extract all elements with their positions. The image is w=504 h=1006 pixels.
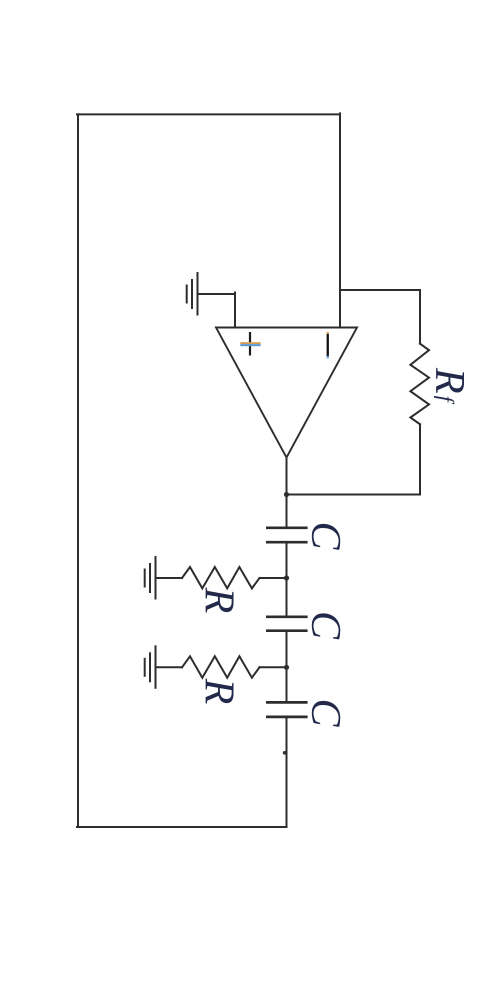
- op-amp U1 triangle: [216, 328, 357, 458]
- junction dot at op-amp output / feedback node: [284, 492, 289, 497]
- wire ground to non-inverting input horizontal: [198, 293, 236, 295]
- svg-text:R: R: [196, 678, 242, 705]
- op-amp plus sign horizontal stroke blue fringe: [240, 344, 260, 346]
- wire non-inverting input vertical: [234, 293, 236, 328]
- resistor Rf zigzag: [410, 344, 429, 425]
- wire op-amp output to C1: [286, 458, 288, 528]
- capacitor C3 plates: [266, 702, 308, 717]
- op-amp minus sign bar: [327, 334, 329, 356]
- ground symbol at R1: [145, 556, 156, 600]
- svg-text:C: C: [302, 521, 348, 550]
- svg-text:C: C: [302, 611, 348, 640]
- wire node A to C2 segment: [286, 542, 288, 617]
- wire outer loop left side: [77, 114, 79, 827]
- capacitor C2 plates: [266, 617, 308, 631]
- minus sign orange tip: [327, 332, 329, 334]
- op-amp plus sign vertical stroke: [249, 332, 251, 356]
- wire capacitor chain bottom segment: [286, 717, 288, 827]
- wire feedback top horizontal: [340, 289, 420, 291]
- wire Rf bottom lead: [419, 424, 421, 494]
- svg-text:Rf: Rf: [426, 367, 472, 405]
- op-amp plus sign horizontal stroke orange fringe: [240, 342, 260, 344]
- wire right vertical to inverting input: [339, 113, 341, 327]
- wire outer loop bottom side: [77, 826, 287, 828]
- wire outer loop top side: [77, 113, 340, 115]
- junction dot at node B: [284, 665, 289, 670]
- resistor R1 zigzag: [182, 567, 260, 588]
- wire R2 right lead to node B: [260, 666, 287, 668]
- resistor R2 zigzag: [182, 656, 260, 677]
- svg-text:R: R: [196, 587, 242, 614]
- wire feedback bottom horizontal: [287, 494, 421, 496]
- wire node B to C3 segment: [286, 631, 288, 703]
- wire R1 left lead to ground: [156, 577, 183, 579]
- capacitor C1 plates: [266, 528, 308, 542]
- wire Rf top lead: [419, 290, 421, 344]
- junction dot below C3: [283, 751, 287, 755]
- ground symbol at non-inverting input: [187, 272, 198, 316]
- svg-text:C: C: [302, 698, 348, 727]
- minus sign blue tip: [327, 356, 329, 358]
- wire R1 right lead to node A: [260, 577, 287, 579]
- wire R2 left lead to ground: [156, 666, 183, 668]
- junction dot at node A: [284, 575, 289, 580]
- ground symbol at R2: [145, 645, 156, 689]
